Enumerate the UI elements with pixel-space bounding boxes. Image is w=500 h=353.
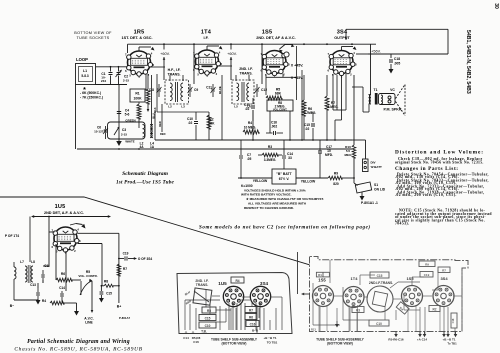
svg-text:WHITE: WHITE xyxy=(125,140,134,144)
svg-text:C15: C15 xyxy=(106,292,112,296)
svg-text:VOL.CONT.: VOL.CONT. xyxy=(273,108,288,112)
antenna coil input xyxy=(14,267,16,279)
component boxes right chassis xyxy=(419,261,435,267)
svg-text:B+: B+ xyxy=(117,305,121,309)
svg-text:C19: C19 xyxy=(123,252,129,256)
svg-text:820: 820 xyxy=(333,182,339,186)
svg-text:2ND DET, A.F. & A.V.C.: 2ND DET, A.F. & A.V.C. xyxy=(44,211,84,215)
ground below switch S1 xyxy=(361,192,363,196)
wire V2 to T3 xyxy=(218,65,232,67)
ground arrow right chassis xyxy=(336,321,338,326)
svg-text:S1: S1 xyxy=(374,183,378,187)
svg-text:I.F.: I.F. xyxy=(203,36,208,40)
svg-text:2ND.I.F.TRANS.: 2ND.I.F.TRANS. xyxy=(369,281,393,285)
svg-text:ALL VOLTAGES ARE MEASURED W: ALL VOLTAGES ARE MEASURED WITH xyxy=(248,202,307,206)
wire V1 to T2 xyxy=(150,66,165,68)
svg-text:P OF 1T4: P OF 1T4 xyxy=(5,234,19,238)
ground below C18 xyxy=(389,69,394,74)
svg-text:R8: R8 xyxy=(104,280,108,284)
svg-text:.02: .02 xyxy=(188,121,193,125)
svg-text:C10: C10 xyxy=(376,322,382,326)
trimmer capacitor C1 xyxy=(110,67,112,72)
wire B+ top bus y29 xyxy=(346,28,448,30)
wire V5 screen line xyxy=(78,243,103,245)
svg-text:MEG: MEG xyxy=(344,153,352,157)
bottom terminal arrows right chassis xyxy=(395,332,397,335)
svg-text:L7: L7 xyxy=(20,260,24,264)
ground arrow below C4 xyxy=(118,139,120,141)
svg-text:(BOTTOM VIEW): (BOTTOM VIEW) xyxy=(327,342,353,346)
svg-text:10 MEG.: 10 MEG. xyxy=(244,126,257,130)
trimmer capacitor C12 xyxy=(256,84,258,88)
wire front-end left bus xyxy=(75,85,77,150)
svg-text:4A: 4A xyxy=(139,145,144,149)
svg-text:R7: R7 xyxy=(123,267,127,271)
svg-text:C11: C11 xyxy=(206,86,212,90)
svg-text:.002: .002 xyxy=(271,125,278,129)
svg-text:.05: .05 xyxy=(247,157,252,161)
svg-text:YELLOW: YELLOW xyxy=(301,180,316,184)
svg-text:- 6K (500KC.): - 6K (500KC.) xyxy=(80,91,101,95)
svg-text:★ MEASURED WITH CHANALYST O: ★ MEASURED WITH CHANALYST OR VOLTOHMYST. xyxy=(245,197,324,201)
svg-text:B−B: B−B xyxy=(252,329,259,333)
junction dots on bus xyxy=(163,43,165,45)
svg-text:R1: R1 xyxy=(135,92,139,96)
svg-text:3S4: 3S4 xyxy=(440,276,448,281)
svg-text:30: 30 xyxy=(493,3,499,9)
grid cap arrow V2 xyxy=(206,46,208,50)
svg-text:To TB1: To TB1 xyxy=(447,342,457,346)
svg-text:2ND. DET, AF & A.V.C.: 2ND. DET, AF & A.V.C. xyxy=(256,36,295,40)
svg-text:70453).: 70453). xyxy=(395,222,409,226)
wire mid vertical drops xyxy=(353,75,355,145)
wires left chassis xyxy=(185,299,220,301)
svg-text:2-15: 2-15 xyxy=(121,133,127,137)
svg-text:R3: R3 xyxy=(356,308,360,312)
svg-text:L5: L5 xyxy=(234,105,238,109)
trimmer capacitor C9 xyxy=(189,84,191,88)
svg-text:TO TB1: TO TB1 xyxy=(267,341,278,345)
svg-text:100K: 100K xyxy=(133,97,142,101)
svg-text:T.B.: T.B. xyxy=(201,330,207,334)
svg-text:R13: R13 xyxy=(311,328,316,332)
wires right chassis xyxy=(334,295,343,297)
svg-text:TRANS.: TRANS. xyxy=(196,283,209,287)
tube V1 1R5 xyxy=(125,51,155,79)
svg-text:+B −B T1: +B −B T1 xyxy=(263,336,276,340)
svg-text:T1: T1 xyxy=(374,88,378,92)
svg-text:C15: C15 xyxy=(377,274,383,278)
svg-text:Schematic Diagram: Schematic Diagram xyxy=(122,171,168,177)
tube V3 1S5 xyxy=(261,51,291,79)
svg-text:R9: R9 xyxy=(425,262,429,266)
svg-text:3S4: 3S4 xyxy=(260,281,269,286)
svg-text:LOOP: LOOP xyxy=(76,57,88,62)
svg-text:2ND. I.F.: 2ND. I.F. xyxy=(239,67,253,71)
trimmer capacitor C11 xyxy=(212,84,214,88)
svg-text:R9: R9 xyxy=(334,172,338,176)
svg-text:33: 33 xyxy=(288,156,292,160)
battery B 67.5V xyxy=(272,169,296,184)
svg-text:.02 mfd., 200 volts (C10,: .02 mfd., 200 volts (C10, C15). xyxy=(395,193,457,197)
svg-text:L1: L1 xyxy=(83,69,87,73)
svg-text:5-8.3: 5-8.3 xyxy=(81,74,88,78)
terminal box +B battery plug xyxy=(363,159,369,172)
wire riser x194 xyxy=(193,44,195,84)
svg-text:.02: .02 xyxy=(245,107,250,111)
svg-text:1S5: 1S5 xyxy=(318,278,326,283)
svg-text:C12: C12 xyxy=(261,88,267,92)
resistor R1 label box right chassis xyxy=(316,272,329,277)
svg-text:X +45V.: X +45V. xyxy=(291,76,304,80)
svg-text:C13: C13 xyxy=(30,283,36,287)
svg-text:OUTPUT: OUTPUT xyxy=(334,36,350,40)
svg-text:H.F., I.F.: H.F., I.F. xyxy=(168,68,181,72)
wire B+ bus y44 xyxy=(128,43,377,45)
wire battery yellow leads xyxy=(238,177,272,179)
svg-text:LINE: LINE xyxy=(85,321,93,325)
svg-text:1ST. DET. & OSC.: 1ST. DET. & OSC. xyxy=(121,36,152,40)
svg-text:Some models do not have C2 (se: Some models do not have C2 (see informat… xyxy=(199,226,371,231)
arrow left of right chassis xyxy=(302,293,310,295)
oscillator coil box L2 C3 xyxy=(108,122,146,139)
trimmer capacitor C8 xyxy=(158,84,160,88)
svg-text:'B'BATT: 'B'BATT xyxy=(371,165,383,169)
wire +45V risers xyxy=(296,46,298,100)
svg-text:P.M. SPKR.: P.M. SPKR. xyxy=(384,108,403,112)
svg-text:TRANS.: TRANS. xyxy=(167,73,180,77)
wire BLUE lead V2 xyxy=(221,75,223,140)
svg-text:C19: C19 xyxy=(424,273,430,277)
svg-text:B−: B− xyxy=(10,304,14,308)
capacitor C18 vertical box right chassis xyxy=(451,313,457,328)
left chassis outline tube shelf xyxy=(177,273,292,334)
svg-text:C14: C14 xyxy=(183,336,189,340)
svg-text:BLK: BLK xyxy=(153,107,157,112)
svg-text:54B1, 54B1-N, 54B2, 54B3: 54B1, 54B1-N, 54B2, 54B3 xyxy=(465,30,471,94)
svg-text:YELLOW: YELLOW xyxy=(253,179,268,183)
wire P of 1T4 down xyxy=(29,217,31,263)
junction dots mid buses xyxy=(252,139,254,141)
svg-text:C18: C18 xyxy=(394,57,400,61)
svg-text:2-15: 2-15 xyxy=(123,79,129,83)
label B+ bottom xyxy=(118,286,120,303)
svg-text:C9: C9 xyxy=(194,88,198,92)
wire V4 pins down xyxy=(332,74,334,110)
svg-text:5-6: 5-6 xyxy=(125,113,130,117)
svg-text:Partial Schematic Diagram and: Partial Schematic Diagram and Wiring xyxy=(27,339,130,345)
svg-text:TRANS.: TRANS. xyxy=(239,72,252,76)
wires left chassis extra xyxy=(212,295,220,297)
svg-text:C18: C18 xyxy=(451,318,455,323)
trimmer capacitor C2 xyxy=(118,67,120,72)
svg-text:1st Prod.—Use 1S5 Tube: 1st Prod.—Use 1S5 Tube xyxy=(116,180,175,186)
wires right chassis extra xyxy=(312,283,314,325)
grid cap arrow V3 xyxy=(279,50,283,53)
oscillator coil L4 xyxy=(150,125,152,138)
switch S1 ON LID xyxy=(355,182,371,193)
svg-text:BOTTOM VIEW OF: BOTTOM VIEW OF xyxy=(74,31,112,35)
svg-text:1U5: 1U5 xyxy=(218,281,227,286)
svg-text:1R5: 1R5 xyxy=(134,30,145,36)
svg-text:C16: C16 xyxy=(250,322,256,326)
svg-text:P-801A7: P-801A7 xyxy=(119,316,130,320)
svg-text:1S5: 1S5 xyxy=(262,30,273,36)
pin wires below sockets left chassis xyxy=(228,303,230,330)
svg-text:Chassis No. RC-589U, RC-589UA,: Chassis No. RC-589U, RC-589UA, RC-589UB xyxy=(14,347,142,353)
tube V4 3S4 xyxy=(328,51,358,79)
wire grid return x119 xyxy=(118,85,120,140)
capacitor C15 label box right chassis xyxy=(370,272,389,278)
grid cap arrow V1 xyxy=(138,47,140,51)
svg-text:.02: .02 xyxy=(305,127,310,131)
wire V5 pin7 lead xyxy=(49,231,55,233)
svg-text:DIV: DIV xyxy=(371,161,376,165)
svg-text:67½ V.: 67½ V. xyxy=(279,177,290,181)
wire BLK lead xyxy=(156,74,158,112)
pin drop wires right chassis xyxy=(318,305,320,331)
svg-text:R4: R4 xyxy=(42,299,46,303)
svg-text:+60V.: +60V. xyxy=(227,52,237,56)
svg-text:.005: .005 xyxy=(394,62,401,66)
svg-text:L2: L2 xyxy=(168,105,172,109)
capacitor C4 5-6 xyxy=(117,112,121,114)
svg-text:1T4: 1T4 xyxy=(351,276,359,281)
svg-text:R2: R2 xyxy=(432,307,436,311)
svg-text:R4: R4 xyxy=(248,121,252,125)
capacitor C18 .005 xyxy=(390,54,392,58)
wire RED lead xyxy=(161,104,163,132)
svg-text:R1: R1 xyxy=(318,273,322,277)
svg-text:L3: L3 xyxy=(181,105,185,109)
wire AVC top line xyxy=(32,216,110,218)
tube V2 1T4 xyxy=(193,50,223,78)
svg-text:(BOTTOM VIEW): (BOTTOM VIEW) xyxy=(222,342,247,346)
svg-text:R7: R7 xyxy=(249,308,253,312)
svg-text:MFD.: MFD. xyxy=(325,153,333,157)
svg-text:+A C14: +A C14 xyxy=(417,338,427,342)
svg-text:R7: R7 xyxy=(442,268,446,272)
speaker PM SPKR xyxy=(396,85,406,116)
svg-text:C3: C3 xyxy=(122,128,126,132)
svg-text:Changes in Parts List:: Changes in Parts List: xyxy=(395,166,459,172)
wires bottom left schematic xyxy=(14,299,38,301)
svg-text:K=1000: K=1000 xyxy=(241,184,253,188)
svg-text:C16: C16 xyxy=(193,340,199,344)
right chassis outline xyxy=(310,257,469,332)
svg-text:C10: C10 xyxy=(205,324,211,328)
svg-text:TUBE SOCKETS: TUBE SOCKETS xyxy=(77,36,110,40)
svg-text:+56V.: +56V. xyxy=(371,50,381,54)
resistor R4 label box xyxy=(231,277,244,283)
svg-text:234: 234 xyxy=(101,79,106,83)
svg-text:P-801A1 -1: P-801A1 -1 xyxy=(361,201,378,205)
potentiometer R8 2 MEG volume control xyxy=(267,100,293,111)
component boxes left chassis xyxy=(202,307,216,313)
wire +B between chassis xyxy=(297,252,299,294)
svg-text:VC: VC xyxy=(390,88,395,92)
svg-text:1T4: 1T4 xyxy=(201,30,212,36)
resistor R1 zigzag xyxy=(146,89,150,104)
wire loop to V1 grid xyxy=(96,66,128,68)
resistor R1 100K xyxy=(130,89,145,102)
wire riser x262 xyxy=(261,44,263,84)
svg-text:RED: RED xyxy=(160,132,166,136)
svg-text:- 7K (1500KC.): - 7K (1500KC.) xyxy=(80,96,103,100)
svg-text:VOL. CONTR.: VOL. CONTR. xyxy=(78,274,97,278)
svg-text:BLUE: BLUE xyxy=(218,86,222,94)
svg-text:R6: R6 xyxy=(249,315,253,319)
svg-text:R3: R3 xyxy=(268,145,272,149)
svg-text:1A: 1A xyxy=(150,145,155,149)
svg-text:+60V.: +60V. xyxy=(160,52,170,56)
wire stubs lower mid xyxy=(252,110,254,140)
svg-text:3.3MEG.: 3.3MEG. xyxy=(264,158,277,162)
unused pin circle V3 xyxy=(284,52,289,57)
svg-text:"B" BATT: "B" BATT xyxy=(276,172,292,176)
svg-text:C15: C15 xyxy=(205,316,211,320)
grid cap arrow V5 xyxy=(70,224,76,226)
svg-text:RESPECT TO CHASSIS GROUND.: RESPECT TO CHASSIS GROUND. xyxy=(244,206,294,210)
wire mid bus xyxy=(155,139,352,141)
svg-text:O OF 3S4: O OF 3S4 xyxy=(138,257,153,261)
svg-text:original Stock No. 70456 w: original Stock No. 70456 with Stock No. … xyxy=(395,160,484,164)
svg-text:1U5: 1U5 xyxy=(55,204,66,210)
grid cap arrow V4 xyxy=(341,47,343,51)
svg-text:R5: R5 xyxy=(207,309,211,313)
svg-text:X +45V.: X +45V. xyxy=(291,64,304,68)
wire output stage xyxy=(356,53,368,55)
tube V5 1U5 xyxy=(52,227,82,255)
svg-text:C14: C14 xyxy=(59,286,65,290)
svg-text:RED: RED xyxy=(158,121,162,127)
separator diagonal line xyxy=(0,197,310,265)
svg-text:R5-R6-C16: R5-R6-C16 xyxy=(388,338,404,342)
svg-text:R6: R6 xyxy=(61,272,65,276)
ground arrow below C13 xyxy=(36,300,41,305)
wire ground bus xyxy=(77,148,352,150)
svg-text:WITH RATED BATTERY VOLTAGE.: WITH RATED BATTERY VOLTAGE. xyxy=(241,193,292,197)
svg-text:R4: R4 xyxy=(235,279,239,283)
wire V5 plate line xyxy=(78,232,119,234)
svg-text:L8: L8 xyxy=(31,260,35,264)
svg-text:Distortion and Low Volume:: Distortion and Low Volume: xyxy=(395,150,484,156)
svg-text:ON LID: ON LID xyxy=(374,188,386,192)
